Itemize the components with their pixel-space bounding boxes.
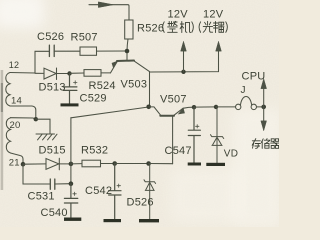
capacitor C526 (49, 45, 54, 56)
svg-text:12: 12 (9, 60, 20, 70)
node C (R526/R507/V503 base) (125, 49, 130, 54)
transistor V507 (149, 107, 161, 115)
node F (rail / V503 collector / V507 collector) (146, 105, 151, 110)
ground bar VD (206, 163, 225, 166)
node I (rail / VD) (214, 105, 218, 109)
svg-text:C542: C542 (85, 185, 112, 197)
capacitor C531 (50, 179, 55, 189)
wire node M to node N (115, 163, 149, 165)
wire node A to C526 branch (35, 51, 49, 73)
arrow to CPU (263, 88, 265, 107)
wire common node to chassis ground (36, 119, 50, 134)
capacitor C547 (188, 107, 200, 162)
wire node B down to C531 (23, 164, 50, 184)
glyph 整 (168, 21, 178, 32)
wire V507 base down to node H (172, 116, 174, 164)
capacitor C542 (109, 164, 121, 220)
wire D513 to node D (57, 73, 70, 75)
glyph 储 (261, 139, 270, 149)
capacitor C540 (64, 184, 77, 218)
ground bar C540 (64, 218, 81, 221)
wire node A to D513 (35, 72, 44, 74)
node winding common (34, 117, 38, 121)
resistor R524 (84, 70, 101, 77)
wire pin 14 to winding common node (10, 106, 36, 119)
arrow on top rail (99, 2, 114, 8)
wire node B to D515 (23, 163, 46, 165)
capacitor C529 plus mark (74, 81, 78, 84)
wire D515 to vertical bus node (59, 163, 71, 165)
label ) of 整机 (192, 22, 194, 33)
capacitor C540 plus mark (73, 192, 77, 195)
node K (CPU / memory branch) (261, 105, 266, 110)
svg-text:R532: R532 (81, 145, 108, 157)
wire J to CPU/memory node (257, 106, 264, 108)
transformer T winding pins 20-21 (6, 118, 10, 153)
svg-text:R507: R507 (71, 32, 98, 44)
glyph 耦 (214, 22, 225, 33)
scan light patch top-left (0, 0, 44, 28)
svg-text:C526: C526 (37, 31, 64, 43)
chassis ground (hatched) (36, 134, 57, 140)
svg-text:C531: C531 (28, 191, 55, 203)
zener diode VD (211, 107, 224, 163)
wire node L to R532 (71, 163, 82, 165)
glyph 光 (203, 21, 212, 32)
scan light patch right (232, 108, 282, 228)
power arrow 12V 整机 (183, 51, 185, 72)
svg-text:21: 21 (9, 157, 20, 168)
jumper J (236, 104, 241, 109)
wire R526 to node C (127, 39, 128, 51)
svg-text:CPU: CPU (242, 71, 266, 83)
wire VD node to jumper J (216, 106, 236, 108)
glyph 机 (180, 22, 190, 33)
main rail from lower-left corner to V503 collector node (71, 107, 149, 118)
node O (C531 / C540 / bus) (69, 181, 74, 186)
scan artifact left edge streak (1, 70, 4, 190)
svg-text:R524: R524 (89, 80, 116, 92)
transistor V503 (111, 61, 118, 73)
power arrow 12V 光耦 (216, 41, 222, 51)
wire pin 12 to node A (10, 72, 35, 75)
wire pin 20 to winding common node (11, 118, 36, 120)
ground bar C542 (104, 219, 122, 222)
glyph 器 (271, 139, 280, 149)
svg-text:20: 20 (10, 120, 21, 131)
capacitor C529 (63, 74, 77, 104)
svg-text:C547: C547 (165, 145, 192, 157)
svg-text:D526: D526 (127, 197, 154, 209)
ground bar C547 (188, 163, 201, 166)
svg-text:12V: 12V (203, 9, 224, 21)
wire 12V tap rail (150, 51, 219, 73)
ground bar C529 (61, 103, 79, 106)
svg-text:C540: C540 (41, 207, 68, 219)
diode D513 (44, 68, 57, 80)
wire R532 to node M (101, 163, 115, 165)
wire R524 to V503 emitter (101, 72, 111, 74)
resistor R526 (125, 20, 133, 39)
scan light patch bottom-mid (170, 168, 240, 223)
svg-text:V507: V507 (160, 94, 187, 106)
diode D515 (46, 158, 59, 170)
wire C526 to R507 (54, 50, 80, 52)
svg-text:12V: 12V (168, 9, 189, 21)
node D (D513/C529/R524) (67, 71, 71, 75)
capacitor C542 plus mark (117, 184, 121, 187)
svg-text:VD: VD (224, 149, 238, 160)
glyph 存 (252, 139, 260, 149)
wire pin 21 down to node B (11, 153, 24, 164)
wire rail G to VD node (194, 106, 216, 108)
transformer T winding pins 12-14 (6, 73, 10, 107)
label ( of 光耦 (199, 22, 201, 33)
svg-text:V503: V503 (121, 79, 148, 91)
node B (pin21 / D515 / C531) (21, 162, 26, 167)
arrow to memory 存储器 (263, 107, 265, 122)
resistor R532 (82, 160, 101, 167)
wire node D to R524 (70, 72, 85, 74)
wire top rail with arrow (89, 5, 129, 20)
label ) of 光耦 (226, 22, 228, 33)
label ( of 整机 (163, 22, 165, 33)
resistor R507 (80, 47, 97, 55)
svg-text:D515: D515 (39, 145, 66, 157)
node N (D526 / V507 base wire) (146, 161, 151, 166)
zener diode D526 (144, 164, 156, 220)
node G (V507 emitter / C547) (192, 105, 196, 109)
svg-text:J: J (241, 85, 246, 96)
wire V503 collector down to main rail (149, 72, 151, 107)
node L (D515 / vertical bus / R532) (69, 162, 74, 167)
svg-text:R526: R526 (137, 23, 164, 35)
wire node N to V507 base corner (149, 163, 173, 165)
svg-text:D513: D513 (39, 82, 66, 94)
ground bar D526 (139, 219, 159, 222)
capacitor C547 plus mark (196, 125, 200, 128)
vertical bus wire x71 (70, 118, 72, 184)
node M (R532 / C542) (112, 161, 117, 166)
wire R507 to node C (97, 50, 128, 52)
svg-text:C529: C529 (80, 93, 107, 105)
svg-text:14: 14 (11, 95, 22, 106)
node E (12V 整机 branch) (181, 70, 185, 74)
wire C531 to node O (55, 183, 71, 185)
